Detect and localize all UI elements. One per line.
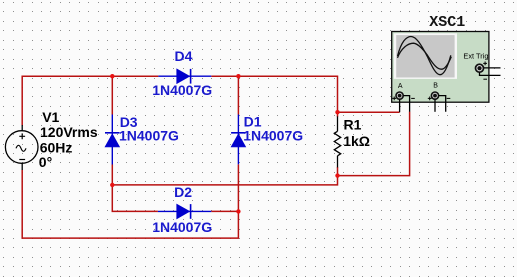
junction node at (112,76)	[110, 74, 114, 78]
svg-text:R1: R1	[344, 117, 362, 133]
svg-text:XSC1: XSC1	[429, 14, 465, 31]
D2 labels	[152, 184, 212, 235]
junction node mid-rail left	[110, 183, 114, 187]
wire D1 bottom to D2-right junction	[237, 164, 239, 211]
wire left branch D3 bottom to mid junction	[111, 165, 113, 185]
svg-text:V1: V1	[42, 109, 59, 125]
svg-text:120Vrms: 120Vrms	[40, 124, 98, 140]
junction node at (238,76)	[236, 74, 240, 78]
oscilloscope XSC1	[392, 32, 489, 103]
scope channel B terminal	[428, 83, 451, 112]
svg-text:1N4007G: 1N4007G	[243, 127, 303, 143]
diode D3	[105, 115, 120, 165]
R1 labels	[343, 117, 370, 150]
D4 labels	[152, 48, 212, 98]
wire top rail right segment and corner down to R1 top	[211, 76, 337, 112]
svg-text:1N4007G: 1N4007G	[152, 219, 212, 235]
scope trace wave 2	[398, 43, 452, 69]
AC source V1	[5, 125, 38, 170]
svg-text:1N4007G: 1N4007G	[152, 82, 212, 98]
diode D4	[158, 69, 211, 84]
D1 labels	[243, 113, 303, 143]
svg-text:Ext Trig: Ext Trig	[463, 51, 488, 60]
svg-text:1N4007G: 1N4007G	[119, 127, 179, 143]
junction node D2 right	[236, 209, 240, 213]
svg-text:D2: D2	[174, 184, 192, 200]
D3 labels	[119, 114, 179, 143]
V1 labels	[39, 109, 98, 170]
wire bottom rail to source bottom	[22, 170, 238, 238]
svg-text:B: B	[433, 83, 438, 90]
resistor R1	[334, 116, 340, 167]
junction node R1 bottom	[335, 173, 339, 177]
wire source-top to top rail left segment	[22, 76, 158, 125]
wire R1 branch red stubs	[337, 112, 339, 117]
wire right branch top (junction to D1)	[237, 76, 239, 114]
wire mid junction down to D2 left	[112, 185, 158, 212]
svg-text:A: A	[398, 83, 403, 90]
wire R1 bottom junction to mid rail	[112, 176, 337, 185]
svg-text:0°: 0°	[39, 154, 52, 170]
wire R1 top to scope A+	[338, 111, 400, 113]
junction node R1 top	[335, 110, 339, 114]
wire left branch top (junction to D3)	[111, 76, 113, 114]
scope trace wave 1	[398, 37, 451, 75]
diode D1	[231, 115, 246, 165]
svg-text:D4: D4	[175, 48, 193, 64]
scope channel A terminal	[392, 83, 415, 112]
Ext Trig terminal	[476, 62, 501, 80]
diode D2	[158, 204, 211, 219]
wire scope A- down to R1 bottom junction	[338, 112, 410, 176]
svg-text:1kΩ: 1kΩ	[343, 133, 370, 149]
wire D2 right to right branch	[211, 210, 238, 212]
